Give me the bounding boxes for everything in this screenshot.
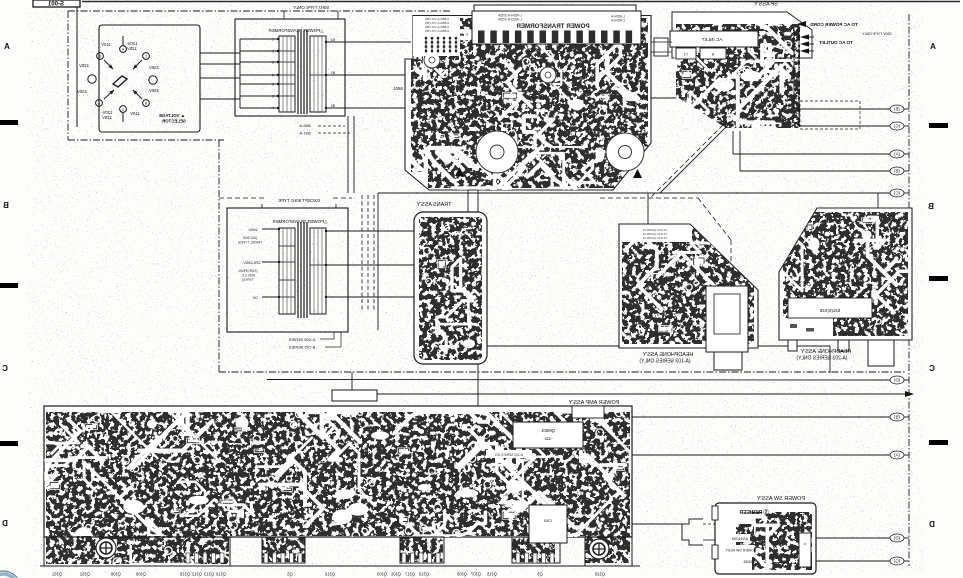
svg-text:POWER SW ASS'Y: POWER SW ASS'Y [757, 496, 805, 502]
svg-text:Q5: Q5 [287, 572, 293, 577]
svg-text:A-103 SERIES 201: A-103 SERIES 201 [495, 453, 523, 457]
terminal (B)2 [739, 131, 741, 171]
vertical drop x378 [377, 193, 379, 330]
svg-text:(C): (C) [893, 124, 900, 129]
T1 core [297, 30, 299, 114]
amp series text patch [486, 450, 532, 458]
selector plain terminal left [88, 75, 96, 83]
svg-text:Q319: Q319 [418, 572, 429, 577]
chassis dash-dot border right vertical [908, 14, 910, 566]
svg-text:Q352: Q352 [79, 572, 90, 577]
PSU board G-6801 outline [405, 16, 651, 191]
svg-text:2: 2 [272, 50, 274, 54]
T2 secondary winding [310, 228, 326, 314]
svg-text:Q317: Q317 [404, 572, 415, 577]
svg-text:0V: 0V [252, 295, 257, 300]
T2 core [297, 222, 299, 318]
svg-text:B65-A: B65-A [299, 123, 310, 128]
svg-text:TRANS ASS'Y: TRANS ASS'Y [416, 202, 451, 208]
svg-text:Q307: Q307 [470, 572, 481, 577]
power sw outline [715, 503, 816, 574]
svg-text:250V: 250V [149, 88, 159, 93]
TO AC POWER CORD [797, 21, 806, 27]
svg-text:TO AC POWER CORD: TO AC POWER CORD [810, 22, 858, 27]
svg-text:AS91039: AS91039 [731, 536, 748, 541]
svg-text:L-A503-A: L-A503-A [610, 19, 625, 23]
selector terminal C [120, 106, 127, 113]
selector top stub [122, 36, 124, 46]
svg-text:3: 3 [272, 61, 274, 65]
terminal (C)2 [378, 192, 890, 194]
power amp bottom baseline [40, 565, 640, 567]
svg-text:5538: 5538 [743, 559, 753, 564]
terminal (D) powersw [816, 537, 890, 539]
svg-text:220-240V: 220-240V [243, 260, 261, 265]
svg-text:7: 7 [272, 107, 274, 111]
svg-text:Y1: Y1 [684, 53, 688, 57]
svg-text:B51-A: B51-A [299, 131, 310, 136]
power amp relief box lower [529, 505, 567, 543]
svg-text:240V: 240V [248, 227, 258, 232]
voltage selector box [99, 25, 200, 132]
selector terminal B [143, 100, 150, 107]
transformer primary stub [240, 61, 278, 63]
selector terminal C [143, 53, 150, 60]
svg-text:(A): (A) [894, 152, 900, 157]
chassis dash-dot border bottom [219, 371, 905, 373]
terminal (B) [794, 108, 890, 110]
svg-text:B: B [3, 201, 9, 210]
svg-text:(G): (G) [893, 559, 900, 564]
PSU pin list block [413, 16, 460, 56]
trans ass'y outline [414, 212, 487, 364]
svg-text:▲ VOLTAGE: ▲ VOLTAGE [159, 113, 185, 118]
T1 secondary wires to PSU board [325, 41, 327, 43]
selector terminal A [120, 46, 127, 53]
svg-text:EXCEPT 50Hz TYPE: EXCEPT 50Hz TYPE [278, 198, 320, 203]
headphone A-203 light zone [781, 318, 833, 338]
svg-text:B: B [99, 55, 101, 59]
wire to PSU [651, 97, 676, 99]
T2 primary winding [279, 228, 295, 314]
selector output wires [200, 52, 240, 54]
svg-text:C: C [929, 364, 935, 373]
svg-text:Q320: Q320 [594, 572, 605, 577]
T1 secondary winding [310, 36, 326, 112]
power amp relief box QM501 [513, 422, 583, 448]
svg-text:531(6)X25: 531(6)X25 [819, 308, 840, 313]
registration ticks right [929, 123, 948, 128]
svg-text:(D): (D) [893, 378, 900, 383]
wire into A-203 [877, 193, 879, 208]
svg-text:220V: 220V [79, 63, 89, 68]
vertical drop wires from T1 [347, 116, 349, 193]
svg-text:△POWER TRANSFORMER: △POWER TRANSFORMER [272, 219, 327, 224]
svg-text:B1: B1 [331, 38, 335, 42]
svg-text:B2: B2 [331, 71, 335, 75]
selector plain terminal right [149, 76, 157, 84]
svg-text:240V: 240V [149, 65, 159, 70]
wire into A-103 [647, 193, 649, 224]
selector arrow [104, 60, 113, 69]
svg-text:Q351: Q351 [51, 572, 62, 577]
transformer primary stub [240, 38, 278, 40]
svg-text:6801: 6801 [393, 86, 403, 91]
blue page-number circle bottom-left [0, 574, 18, 578]
svg-text:(C): (C) [893, 191, 900, 196]
svg-text:Q318: Q318 [179, 572, 190, 577]
svg-text:L-A503-A-205/A: L-A503-A-205/A [497, 18, 521, 22]
diagonal chassis cut dashed [650, 125, 723, 198]
svg-text:250V TYPE ONLY: 250V TYPE ONLY [862, 32, 892, 36]
svg-text:110V: 110V [130, 111, 140, 116]
PSU warning triangle left [455, 167, 464, 176]
headphone A-203 feet [788, 340, 797, 351]
svg-text:B3: B3 [331, 104, 335, 108]
headphone A-103 jack box [706, 286, 748, 352]
selector terminal A [96, 100, 103, 107]
AC small connector boxes [676, 48, 696, 59]
svg-text:Q316: Q316 [215, 572, 226, 577]
selector rotor [113, 76, 127, 87]
svg-text:A: A [4, 42, 10, 51]
svg-text:(A02 AND: (A02 AND [242, 236, 257, 240]
T2 primary stubs [262, 228, 279, 230]
PSU warning triangle right [633, 169, 642, 178]
svg-text:A: A [930, 42, 936, 51]
svg-text:240V: 240V [77, 89, 87, 94]
svg-text:Q312: Q312 [191, 572, 202, 577]
arrow wire [352, 393, 905, 395]
headphone A-103 outline [619, 224, 758, 348]
svg-text:(A-203 SERIES ONLY): (A-203 SERIES ONLY) [796, 356, 847, 362]
svg-text:Q308: Q308 [110, 572, 121, 577]
svg-text:(A): (A) [894, 453, 900, 458]
PSU header box [474, 5, 636, 12]
terminal (B) amp [632, 416, 890, 418]
PSU screw hole left [424, 52, 440, 68]
power amp bottom tabs [44, 537, 230, 566]
svg-text:125V: 125V [127, 46, 137, 51]
amp to sw wire [632, 523, 682, 525]
AC drop wires [793, 28, 795, 109]
selector arrow [133, 60, 142, 69]
svg-text:(B): (B) [894, 107, 900, 112]
except-50Hz label [219, 197, 266, 199]
PSU texture [411, 18, 648, 189]
top scan edge line [82, 1, 960, 3]
power amp screw left [96, 538, 116, 558]
svg-text:CN3: CN3 [543, 518, 552, 523]
svg-text:125V: 125V [102, 115, 112, 120]
svg-text:S-001: S-001 [47, 2, 64, 8]
svg-text:TO AC OUTLET: TO AC OUTLET [819, 40, 853, 45]
svg-text:N: N [711, 53, 714, 57]
svg-text:6: 6 [272, 95, 274, 99]
terminal (D) headphone [267, 379, 890, 382]
trans board wires [467, 190, 469, 212]
svg-text:Q5: Q5 [537, 572, 543, 577]
svg-text:Q303: Q303 [376, 572, 387, 577]
chassis dash-dot border left [67, 11, 69, 140]
svg-text:Q313: Q313 [203, 572, 214, 577]
svg-text:Q301: Q301 [390, 572, 401, 577]
power transformer T1 box [235, 19, 345, 116]
sheet number box S-001 [33, 0, 80, 7]
svg-text:A-B50-A-YR-YBS: A-B50-A-YR-YBS [425, 29, 449, 33]
amp top-edge relief tab [572, 406, 604, 418]
svg-text:(B): (B) [894, 169, 900, 174]
selector arrow [133, 90, 142, 99]
svg-text:1: 1 [272, 38, 274, 42]
svg-text:AC INLET: AC INLET [701, 37, 722, 42]
headphone A-203 outline [779, 208, 912, 340]
svg-text:(D): (D) [893, 536, 900, 541]
svg-text:B: B [145, 102, 147, 106]
transformer primary stub [240, 74, 278, 76]
svg-text:D: D [929, 520, 935, 529]
svg-text:-111-: -111- [543, 436, 553, 441]
chassis dash-dot border mid-left vertical [218, 140, 220, 372]
diagonal chassis cut solid [660, 120, 733, 193]
A-103 silk text block [622, 226, 692, 242]
svg-text:Q305: Q305 [456, 572, 467, 577]
transformer T2 box [227, 208, 348, 332]
AC texture [673, 24, 800, 132]
selector arrow [104, 90, 114, 99]
PSU header wire columns [478, 31, 485, 44]
power amp ass'y label [554, 397, 634, 406]
svg-text:SELECTOR: SELECTOR [161, 119, 186, 124]
svg-text:HEADPHONE ASS'Y: HEADPHONE ASS'Y [642, 352, 693, 358]
T2 secondary wires to trans board [325, 230, 327, 232]
svg-text:HEADPHONE ASS'Y: HEADPHONE ASS'Y [800, 349, 851, 355]
svg-text:POWER AMP ASS'Y: POWER AMP ASS'Y [568, 400, 619, 406]
chassis dash-dot border selector bottom [68, 139, 224, 141]
svg-text:C: C [2, 364, 8, 373]
svg-text:D: D [2, 519, 8, 528]
power sw texts [722, 534, 750, 542]
svg-text:Q315: Q315 [486, 572, 497, 577]
leader line from sheet box [76, 7, 78, 127]
svg-text:TRAVEL TYPES): TRAVEL TYPES) [238, 241, 262, 245]
svg-text:C5 R12 QH305-21: C5 R12 QH305-21 [642, 236, 667, 240]
svg-text:4: 4 [272, 74, 274, 78]
PSU relief circle left [476, 131, 518, 173]
registration ticks left [0, 120, 18, 125]
AC inlet box [670, 31, 758, 47]
svg-text:QM501: QM501 [540, 428, 554, 433]
transformer primary stub [240, 107, 278, 109]
svg-text:5: 5 [272, 83, 274, 87]
power amp outline [44, 406, 632, 537]
svg-text:Ⓢ PIONEER: Ⓢ PIONEER [739, 509, 768, 516]
chassis dash-dot border top [68, 10, 452, 12]
svg-text:110V: 110V [101, 42, 111, 47]
svg-text:(B): (B) [894, 415, 900, 420]
AC terminal dashed box [800, 101, 860, 129]
svg-text:TYPES): TYPES) [242, 278, 254, 282]
svg-text:Q310: Q310 [324, 572, 335, 577]
selector bottom stub [122, 113, 124, 123]
power amp teeth [186, 553, 190, 563]
svg-text:A-X05 SERIES: A-X05 SERIES [288, 337, 315, 342]
svg-text:N: N [804, 542, 806, 546]
headphone region dashed boundary [600, 197, 698, 199]
svg-text:SP ASS'Y: SP ASS'Y [754, 2, 778, 8]
svg-text:50Hz TYPE ONLY: 50Hz TYPE ONLY [293, 5, 329, 10]
svg-text:Q309: Q309 [135, 572, 146, 577]
transformer primary stub [240, 95, 278, 97]
PSU screw hole mid [540, 67, 556, 83]
power sw connector plug [682, 519, 703, 545]
svg-text:POWER SW ASSY: POWER SW ASSY [725, 549, 756, 553]
terminal (A) [732, 131, 734, 154]
headphone A-203 white band [788, 298, 872, 318]
terminal (G) powersw [816, 560, 890, 562]
svg-text:B: B [928, 202, 934, 211]
svg-text:(EUROPEAN: (EUROPEAN [238, 269, 258, 273]
terminal (A) amp [632, 454, 890, 456]
power amp screw right [589, 539, 609, 559]
transformer primary stub [240, 83, 278, 85]
SP mounting hole right [727, 25, 736, 34]
PSU-SP link box [654, 38, 668, 56]
svg-text:AND U.K.: AND U.K. [241, 274, 255, 278]
SP mounting hole left [692, 25, 701, 34]
selector terminal B [97, 53, 104, 60]
power sw note box [799, 533, 811, 567]
transformer primary stub [240, 50, 278, 52]
svg-text:POWER TRANSFORMER: POWER TRANSFORMER [516, 23, 590, 30]
terminal (C) [799, 125, 890, 127]
svg-text:(A-103 SERIES ONLY): (A-103 SERIES ONLY) [639, 359, 690, 365]
PSU relief circle right [606, 133, 644, 171]
svg-text:B-105 SERIES: B-105 SERIES [288, 345, 315, 350]
svg-text:△POWER TRANSFORMER: △POWER TRANSFORMER [268, 28, 323, 33]
T1 primary winding [279, 36, 295, 112]
SP assembly outline [672, 12, 812, 58]
power amp top tab left [332, 390, 377, 401]
